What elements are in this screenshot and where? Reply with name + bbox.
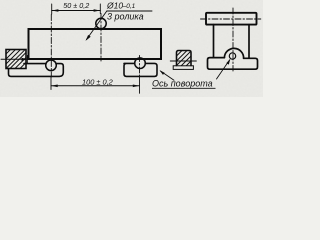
svg-text:100 ± 0,2: 100 ± 0,2 xyxy=(82,78,113,87)
svg-text:3 ролика: 3 ролика xyxy=(107,12,144,22)
svg-text:Ось поворота: Ось поворота xyxy=(152,79,213,89)
svg-text:Ø10: Ø10 xyxy=(106,1,123,11)
svg-text:–0,1: –0,1 xyxy=(122,3,136,10)
svg-text:50 ± 0,2: 50 ± 0,2 xyxy=(63,1,89,10)
